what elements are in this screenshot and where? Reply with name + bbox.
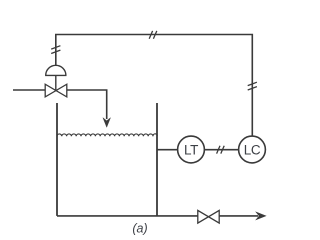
signal hash marks between LT and LC: [217, 146, 225, 154]
wire LT tap from tank wall: [157, 149, 178, 151]
signal hash marks on right vertical line: [248, 82, 257, 90]
svg-text:LC: LC: [244, 142, 261, 157]
tank: [57, 103, 157, 216]
liquid level wavy line: [57, 134, 157, 137]
instrument LT circle: [178, 136, 205, 163]
signal hash marks on left vertical line: [51, 46, 60, 54]
wire tank outlet line left of valve: [57, 215, 198, 217]
signal hash marks on top horizontal line: [149, 31, 157, 39]
wire LT to LC signal: [204, 149, 239, 151]
manual valve V2 on outlet: [198, 210, 219, 223]
wire inlet pipe right segment: [67, 90, 107, 119]
arrowhead into tank: [103, 118, 111, 128]
control valve V1 stem: [55, 75, 57, 90]
svg-text:LT: LT: [184, 142, 198, 157]
wire tank outlet line right of valve: [219, 215, 258, 217]
wire signal line from valve actuator to top and down to LC: [56, 35, 253, 136]
svg-text:(a): (a): [132, 221, 147, 235]
control valve V1 diaphragm actuator dome: [45, 65, 66, 75]
arrowhead outlet right: [256, 212, 266, 220]
instrument LC circle: [239, 136, 266, 163]
control valve V1 body: [45, 84, 67, 97]
wire inlet pipe left segment: [13, 89, 45, 91]
